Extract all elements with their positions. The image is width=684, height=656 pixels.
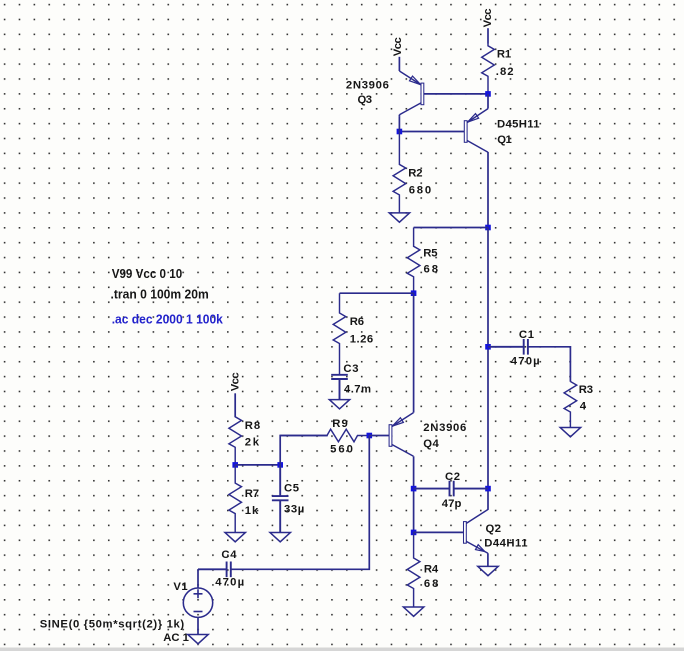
label R7 xyxy=(245,488,259,500)
ground under R3 xyxy=(560,428,580,437)
junction R1/Q3/Q1 node xyxy=(485,91,491,97)
value 4 (R3) xyxy=(580,401,587,413)
directive .ac xyxy=(112,312,224,326)
svg-text:C5: C5 xyxy=(284,483,299,495)
junction Q2 base / R4 xyxy=(411,530,417,536)
resistor R1 xyxy=(482,44,495,94)
label R6 xyxy=(350,316,364,328)
svg-text:AC 1: AC 1 xyxy=(163,632,189,644)
resistor R8 xyxy=(229,393,242,465)
svg-text:470µ: 470µ xyxy=(215,577,244,589)
svg-text:560: 560 xyxy=(330,444,353,456)
svg-text:Vcc: Vcc xyxy=(229,372,241,391)
label R4 xyxy=(424,564,439,576)
ground under R2 xyxy=(389,213,409,222)
wire R5 node to R6 top xyxy=(340,292,414,294)
capacitor C3 xyxy=(331,375,348,400)
svg-text:R4: R4 xyxy=(424,564,439,576)
ground under R7 xyxy=(225,533,245,542)
wire C4 to input node xyxy=(231,436,369,570)
svg-text:47p: 47p xyxy=(442,498,462,510)
label 2N3906 (Q3) xyxy=(346,80,389,92)
value 560 xyxy=(330,444,353,456)
capacitor C5 xyxy=(272,465,289,533)
svg-text:C2: C2 xyxy=(445,471,460,483)
wire output node to R5 top xyxy=(414,227,488,229)
value 47p xyxy=(442,498,462,510)
svg-text:470µ: 470µ xyxy=(511,356,540,368)
resistor R6 xyxy=(333,293,346,375)
resistor R9 xyxy=(280,429,369,442)
svg-text:C1: C1 xyxy=(519,329,534,341)
svg-text:Q3: Q3 xyxy=(358,94,373,106)
wire Q4 collector down xyxy=(413,456,415,532)
svg-text:Q2: Q2 xyxy=(486,523,502,535)
value 1k xyxy=(245,505,259,517)
label C4 xyxy=(221,549,237,561)
wire R5 node down to Q4 emitter xyxy=(413,293,415,412)
label Q1 xyxy=(497,134,512,146)
label R9 xyxy=(332,418,348,430)
transistor Q2 D44H11 npn xyxy=(464,510,488,567)
svg-text:Q4: Q4 xyxy=(423,438,439,450)
wire Vcc to R1 xyxy=(487,28,489,43)
junction output node top xyxy=(485,225,491,231)
resistor R3 xyxy=(564,381,577,427)
svg-text:SINE(0 {50m*sqrt(2)} 1k): SINE(0 {50m*sqrt(2)} 1k) xyxy=(40,619,185,631)
value 470u (C4) xyxy=(215,577,244,589)
ground under C3 xyxy=(329,400,349,409)
svg-text:R1: R1 xyxy=(497,49,511,61)
svg-text:1.26: 1.26 xyxy=(350,333,373,345)
value .82 xyxy=(496,66,514,78)
svg-text:33µ: 33µ xyxy=(284,504,304,516)
junction C5 top xyxy=(277,462,283,468)
wire node down to Q1 emitter xyxy=(487,94,489,109)
svg-text:V1: V1 xyxy=(173,581,187,593)
junction R8/R7 divider xyxy=(232,462,238,468)
junction R5 bottom / R6 / Q4 emitter xyxy=(411,290,417,296)
ground under C5 xyxy=(270,533,290,542)
label D45H11 (Q1) xyxy=(497,119,540,131)
wire Q3 base to node xyxy=(424,93,488,95)
wire Vcc to Q3 emitter xyxy=(398,57,400,71)
resistor R7 xyxy=(229,465,242,533)
ground under V1 xyxy=(188,635,208,644)
directive .tran xyxy=(111,288,209,302)
svg-text:.82: .82 xyxy=(496,66,514,78)
svg-text:4.7m: 4.7m xyxy=(344,383,371,395)
label R2 xyxy=(408,167,422,179)
status bar strip xyxy=(0,648,684,652)
value 68 (R5) xyxy=(424,263,439,275)
svg-text:.ac dec 2000 1 100k: .ac dec 2000 1 100k xyxy=(112,312,224,326)
transistor Q1 D45H11 pnp xyxy=(464,109,488,153)
label C5 xyxy=(284,483,299,495)
svg-text:D44H11: D44H11 xyxy=(484,538,527,550)
svg-text:R2: R2 xyxy=(408,167,422,179)
net label Vcc (R8) xyxy=(229,372,241,391)
wire junction to Q4 base xyxy=(369,435,389,437)
junction C2 right / Q2 collector xyxy=(485,486,491,492)
resistor R4 xyxy=(407,532,420,607)
wire divider up to R9 xyxy=(280,436,328,465)
wire V1 top xyxy=(197,569,199,588)
svg-text:68: 68 xyxy=(424,578,439,590)
wire divider to C5 node xyxy=(235,464,280,466)
label C3 xyxy=(343,363,358,375)
label V1 xyxy=(173,581,187,593)
svg-text:680: 680 xyxy=(409,185,432,197)
junction C1 tap xyxy=(485,344,491,350)
label R1 xyxy=(497,49,511,61)
svg-text:D45H11: D45H11 xyxy=(497,119,540,131)
wire Q3 collector down xyxy=(398,116,400,131)
wire Q3 collector junction to Q1 base xyxy=(399,131,464,133)
svg-text:4: 4 xyxy=(580,401,587,413)
svg-text:2N3906: 2N3906 xyxy=(346,80,389,92)
resistor R2 xyxy=(393,132,406,213)
svg-text:Vcc: Vcc xyxy=(482,8,494,27)
value 68 (R4) xyxy=(424,578,439,590)
net label Vcc (Q3 emitter) xyxy=(392,37,404,56)
value 1.26 xyxy=(350,333,373,345)
junction Q3 collector / R2 / Q1 base xyxy=(397,129,403,135)
label R3 xyxy=(579,384,593,396)
label C2 xyxy=(445,471,460,483)
label 2N3906 (Q4) xyxy=(423,422,466,434)
value 470u (C1) xyxy=(511,356,540,368)
wire output column down xyxy=(487,228,489,510)
svg-text:R7: R7 xyxy=(245,488,259,500)
wire C1 right to R3 top xyxy=(528,347,571,382)
label C1 xyxy=(519,329,534,341)
ground under R4 xyxy=(403,607,423,616)
svg-text:Q1: Q1 xyxy=(497,134,512,146)
label Q3 xyxy=(358,94,373,106)
directive V99 Vcc 0 10 xyxy=(112,267,183,281)
transistor Q4 2N3906 pnp xyxy=(389,413,413,457)
value SINE(0 {50m*sqrt(2)} 1k) xyxy=(40,619,185,631)
svg-text:C3: C3 xyxy=(343,363,358,375)
label R5 xyxy=(423,247,437,259)
svg-text:Vcc: Vcc xyxy=(392,37,404,56)
wire Q1 collector down xyxy=(487,152,489,228)
label Q4 xyxy=(423,438,439,450)
svg-text:2k: 2k xyxy=(245,437,260,449)
value 2k xyxy=(245,437,260,449)
svg-text:R8: R8 xyxy=(245,420,261,432)
svg-text:.tran 0 100m 20m: .tran 0 100m 20m xyxy=(111,288,209,302)
ground under Q2 emitter xyxy=(478,566,498,575)
svg-text:R3: R3 xyxy=(579,384,593,396)
junction R9 / C4 / Q4 base xyxy=(367,433,373,439)
transistor Q3 2N3906 pnp xyxy=(399,71,423,116)
wire junction to Q2 base xyxy=(414,531,464,533)
svg-text:R6: R6 xyxy=(350,316,364,328)
resistor R5 xyxy=(407,228,420,294)
svg-text:V99 Vcc 0 10: V99 Vcc 0 10 xyxy=(112,267,183,281)
voltage source V1 xyxy=(183,588,212,617)
wire Vcc to R8 xyxy=(234,393,236,417)
value 4.7m xyxy=(344,383,371,395)
svg-text:68: 68 xyxy=(424,263,439,275)
capacitor C1 xyxy=(488,339,528,355)
capacitor C2 xyxy=(414,481,488,497)
net label Vcc (R1 supply) xyxy=(482,8,494,27)
wire V1 bottom to ground xyxy=(197,617,199,634)
capacitor C4 xyxy=(198,562,231,578)
label Q2 xyxy=(486,523,502,535)
junction C2 left xyxy=(411,486,417,492)
value 680 xyxy=(409,185,432,197)
svg-text:1k: 1k xyxy=(245,505,259,517)
svg-text:2N3906: 2N3906 xyxy=(423,422,466,434)
svg-text:R9: R9 xyxy=(332,418,348,430)
svg-text:R5: R5 xyxy=(423,247,437,259)
value AC 1 xyxy=(163,632,189,644)
label R8 xyxy=(245,420,261,432)
label D44H11 (Q2) xyxy=(484,538,527,550)
svg-text:C4: C4 xyxy=(221,549,237,561)
value 33u xyxy=(284,504,304,516)
